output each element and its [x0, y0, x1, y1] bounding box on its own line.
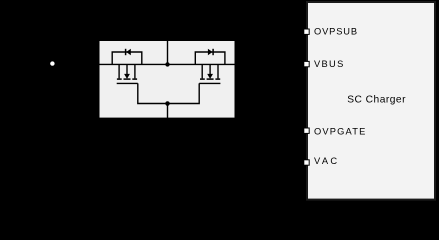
pin VBUS terminal	[304, 61, 309, 66]
pin label OVPSUB	[314, 27, 358, 37]
label SC Charger	[347, 95, 406, 106]
wire: gate stem to box bottom edge	[167, 104, 169, 119]
diode D1 body diode loop (left)	[112, 52, 142, 64]
OVP dual-FET block outline	[99, 40, 236, 119]
node A: junction dot on rail	[165, 62, 169, 66]
transistor Q2 (right MOSFET)	[199, 64, 220, 83]
svg-text:SC Charger: SC Charger	[347, 95, 406, 106]
diode D1 symbol (cathode left)	[126, 49, 131, 55]
pin label VBUS	[314, 59, 345, 69]
op-amp U1: SC Charger IC body	[307, 2, 435, 200]
svg-text:OVPGATE: OVPGATE	[314, 126, 366, 136]
pin VAC terminal	[304, 160, 309, 165]
wire: main VBUS rail	[100, 63, 235, 65]
wire: Q1 gate down-right to common gate node	[138, 83, 168, 103]
pin OVPGATE terminal	[304, 128, 309, 133]
pin OVPSUB terminal	[304, 29, 309, 34]
svg-text:VAC: VAC	[314, 156, 339, 166]
svg-text:VBUS: VBUS	[314, 59, 345, 69]
node B: common gate junction dot	[165, 101, 170, 106]
wire: top stem from box edge to rail	[167, 40, 169, 64]
node C: white junction dot (AC input net)	[50, 61, 54, 65]
pin label VAC	[314, 156, 339, 166]
svg-text:OVPSUB: OVPSUB	[314, 27, 358, 37]
wire: Q2 gate down-left to common gate node	[168, 83, 200, 103]
transistor Q1 (left MOSFET)	[117, 64, 138, 83]
diode D2 body diode loop (right)	[195, 52, 225, 64]
pin label OVPGATE	[314, 126, 366, 136]
diode D2 symbol (cathode right)	[208, 49, 213, 55]
